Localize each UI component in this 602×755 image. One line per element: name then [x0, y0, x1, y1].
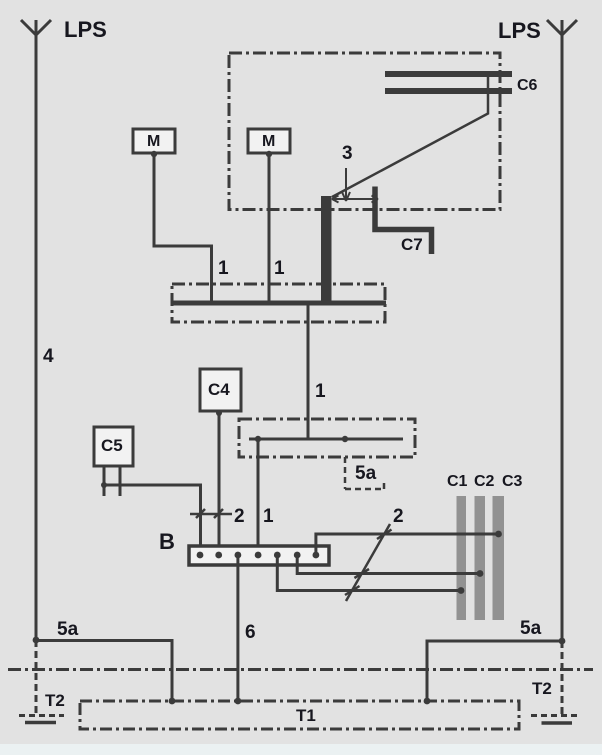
svg-text:C7: C7: [401, 235, 423, 254]
node on ring right: [342, 436, 348, 442]
air terminal LPS right: [547, 20, 577, 641]
svg-text:T2: T2: [45, 691, 65, 710]
wire down-conductor left to T1: [36, 641, 172, 702]
wire 1 from bar down: [307, 305, 310, 439]
svg-text:B: B: [159, 529, 175, 554]
node at C1: [458, 587, 465, 594]
svg-text:C4: C4: [208, 380, 230, 399]
ground level dash-dot line: [8, 668, 593, 671]
node at M2: [266, 151, 272, 157]
air-termination mast (thick): [321, 196, 332, 304]
node at C4: [216, 410, 222, 416]
dash-dot zone boundary (upper structure): [229, 53, 500, 210]
earth T2 right symbol: [531, 714, 578, 717]
svg-text:6: 6: [245, 622, 256, 643]
foundation earth T1 box: [80, 701, 519, 729]
wire C4 to bus B: [218, 413, 221, 549]
cable tray C3: [493, 496, 505, 620]
wire M2 to bus: [268, 154, 271, 303]
equipotential bonding bar (thick): [172, 301, 386, 306]
svg-text:M: M: [147, 133, 160, 150]
wire 6 from B to T1: [236, 555, 239, 701]
node at C5: [101, 482, 107, 488]
wire down-conductor right to T1: [427, 641, 562, 701]
terminal dots in B: [197, 552, 320, 559]
node at C2: [477, 570, 484, 577]
node at T1 (wire 6): [235, 698, 242, 705]
svg-text:2: 2: [393, 506, 404, 527]
ring conductor line: [249, 438, 403, 441]
svg-text:C1: C1: [447, 473, 468, 490]
earth T2 left symbol: [19, 714, 64, 717]
svg-text:5a: 5a: [57, 619, 79, 640]
cable tray C2: [475, 496, 486, 620]
node at M1: [151, 151, 157, 157]
wire B to C3: [316, 534, 499, 555]
separation distance arrow (3): [332, 168, 378, 203]
svg-text:1: 1: [315, 381, 326, 402]
earth electrode T2 left lead: [35, 640, 38, 715]
svg-text:2: 2: [234, 506, 245, 527]
conductor C6 upper bar: [385, 71, 512, 77]
5a callout dashed: [345, 457, 384, 489]
node at T1 left: [169, 698, 176, 705]
conductor C6 lower bar: [385, 88, 512, 94]
wire B to C2: [297, 555, 480, 574]
node on ring left: [255, 436, 261, 442]
svg-text:5a: 5a: [520, 618, 542, 639]
svg-text:1: 1: [263, 506, 274, 527]
disconnect marks 2 (left): [190, 509, 232, 518]
C5 prongs: [104, 466, 120, 496]
wire C6 tap to mast: [332, 75, 488, 197]
svg-text:LPS: LPS: [64, 17, 107, 42]
svg-text:LPS: LPS: [498, 18, 541, 43]
svg-text:5a: 5a: [355, 463, 377, 484]
earth electrode T2 right lead: [561, 641, 564, 715]
conductor C7: [375, 187, 432, 255]
air terminal LPS left: [21, 20, 51, 640]
svg-text:M: M: [262, 133, 275, 150]
equipment C5: [94, 427, 133, 466]
svg-text:4: 4: [43, 346, 54, 367]
wire B to C1: [277, 555, 461, 591]
dash-dot box around equipotential bar: [172, 284, 385, 322]
svg-text:C6: C6: [517, 77, 538, 94]
svg-text:1: 1: [218, 258, 229, 279]
equipment C4: [200, 369, 241, 411]
svg-text:T1: T1: [296, 706, 316, 725]
node 5a right: [559, 638, 566, 645]
svg-text:T2: T2: [532, 679, 552, 698]
node 5a left: [33, 637, 40, 644]
bonding bar B box: [189, 546, 329, 565]
wire M1 to bus: [154, 154, 212, 303]
dash-dot box 5a (ring conductor): [239, 419, 415, 457]
conductor count slash 2 (right): [345, 524, 392, 601]
bottom strip: [0, 744, 602, 755]
wire ring to bus B: [257, 439, 260, 549]
svg-text:C2: C2: [474, 473, 495, 490]
svg-text:1: 1: [274, 258, 285, 279]
wire C5 to bus B: [104, 485, 201, 549]
node at T1 right: [424, 698, 431, 705]
svg-text:3: 3: [342, 143, 353, 164]
motor M2: [248, 129, 290, 153]
motor M1: [133, 129, 175, 153]
cable tray C1: [457, 496, 467, 620]
svg-text:C3: C3: [502, 473, 523, 490]
svg-text:C5: C5: [101, 436, 123, 455]
node at C3: [495, 531, 502, 538]
